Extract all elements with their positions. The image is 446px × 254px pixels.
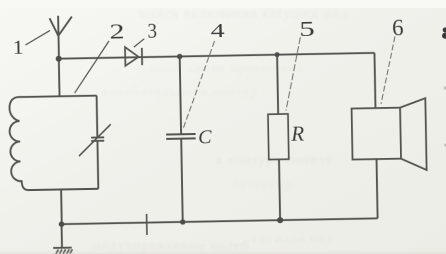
svg-text:R: R (290, 122, 304, 146)
wire: right vertical to loudspeaker (374, 53, 375, 108)
wire: capacitor C branch (180, 56, 183, 221)
node: R branch bottom (277, 217, 283, 223)
leader line 4 (181, 41, 216, 129)
svg-text:2: 2 (109, 19, 124, 43)
wire: tank bottom to bottom rail (60, 189, 63, 224)
variable capacitor C1 (tank, right side) (90, 95, 105, 188)
resistor R body (268, 114, 289, 160)
leader line 1 (25, 30, 50, 45)
bottom scan shadow band (0, 249, 446, 254)
node: C branch top (177, 54, 182, 59)
svg-text:сигнала низ: сигнала низ (252, 232, 334, 247)
svg-text:1: 1 (13, 37, 24, 59)
wire: top rail (59, 53, 375, 59)
partial glyph at right page edge (442, 27, 446, 38)
leader line 2 (74, 41, 110, 93)
ghost show-through text (92, 7, 349, 254)
tick mark on bottom rail (146, 214, 148, 235)
node: C branch bottom (180, 219, 185, 224)
loudspeaker BA1 box (352, 108, 401, 160)
wire: resistor R branch (277, 55, 280, 220)
svg-text:шаяся включения катушки инд: шаяся включения катушки инд (138, 7, 349, 22)
loudspeaker horn (400, 98, 427, 170)
capacitor C plates (166, 134, 196, 139)
antenna W1 (50, 16, 73, 59)
wire: loudspeaker to bottom rail (377, 159, 378, 218)
svg-text:6: 6 (392, 15, 404, 40)
leader line 5 (285, 37, 302, 110)
wire: junction to tank top (58, 59, 61, 97)
inductor L1 (tank coil, left side of loop) with tank outline (9, 96, 98, 191)
node: ground junction (59, 221, 65, 227)
node: R branch top (275, 52, 280, 57)
leader line 3 (134, 39, 145, 47)
svg-text:иной связи приемника: иной связи приемника (150, 61, 303, 76)
svg-text:детектир: детектир (232, 177, 293, 192)
svg-text:5: 5 (299, 17, 315, 41)
leader line 6 (380, 36, 396, 104)
faint marks at right page edge (444, 86, 446, 146)
ground symbol (53, 224, 72, 248)
diode cathode bar (141, 48, 143, 65)
node: antenna junction (56, 56, 62, 62)
diode VD1 (125, 47, 139, 66)
variable capacitor arrow (78, 124, 111, 156)
svg-text:4: 4 (210, 21, 225, 42)
ground hatching (56, 249, 73, 254)
svg-text:C: C (198, 126, 212, 148)
svg-text:в контуре появля: в контуре появля (216, 153, 333, 168)
svg-text:3: 3 (147, 18, 157, 42)
wire: bottom rail (62, 218, 378, 224)
